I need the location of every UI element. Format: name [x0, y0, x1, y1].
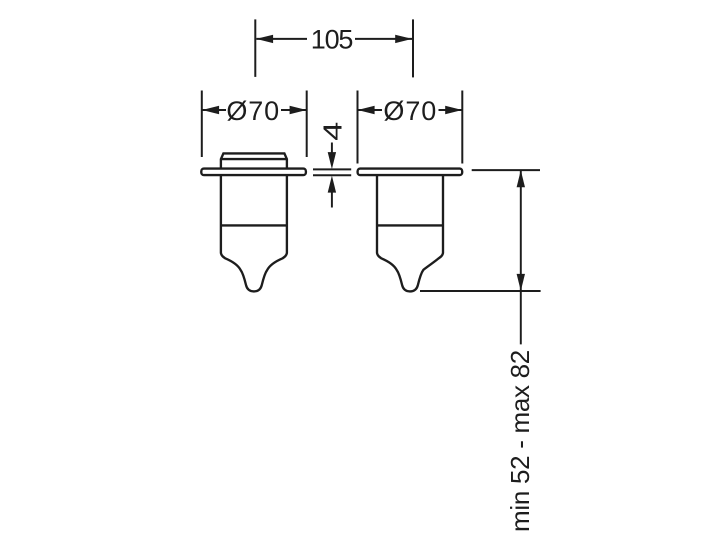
- left diameter dimension line: [202, 109, 307, 111]
- vertical dimension line: [520, 170, 522, 344]
- left valve flange plate: [201, 169, 306, 176]
- left valve body outline: [221, 175, 287, 291]
- vertical dimension top extension line: [472, 169, 540, 171]
- dimension 105 left arrowhead: [256, 35, 273, 43]
- dimension 105 right arrowhead: [395, 35, 412, 43]
- right diameter value label Ø70: [383, 96, 437, 126]
- dimension 105 line: [256, 38, 412, 40]
- left diameter left arrowhead: [202, 106, 219, 114]
- left diameter dimension extension line left: [201, 91, 203, 158]
- vertical dimension label min 52 - max 82 (rotated): [505, 350, 535, 532]
- vertical dimension bottom extension line: [420, 290, 541, 292]
- right valve body outline: [377, 175, 443, 291]
- dimension 4 lower arrowhead (points up): [328, 176, 336, 193]
- right diameter dimension line: [358, 109, 462, 111]
- vertical dimension bottom arrowhead (points down): [517, 274, 525, 291]
- dimension 4 upper leader stem: [331, 143, 333, 157]
- right diameter dimension extension line left: [357, 91, 359, 164]
- dimension 4 upper extension dash (flange top): [313, 168, 351, 170]
- dimension 4 lower leader stem: [331, 189, 333, 208]
- svg-text:Ø70: Ø70: [226, 96, 280, 126]
- dimension 4 value label (rotated): [318, 122, 348, 141]
- left valve body part line: [221, 224, 287, 226]
- right diameter dimension extension line right: [461, 91, 463, 164]
- right diameter right arrowhead: [445, 106, 462, 114]
- left valve cap disc: [221, 153, 287, 168]
- dimension 105 left extension line: [254, 19, 256, 77]
- left diameter dimension extension line right: [306, 91, 308, 158]
- svg-text:105: 105: [311, 25, 353, 55]
- dimension 4 upper arrowhead (points down): [328, 152, 336, 169]
- left diameter value label Ø70: [226, 96, 280, 126]
- right valve flange plate: [358, 169, 463, 176]
- dimension 4 lower extension dash (flange bottom): [313, 174, 351, 176]
- dimension 105 right extension line: [412, 19, 414, 77]
- svg-text:min 52 - max 82: min 52 - max 82: [505, 350, 535, 532]
- vertical dimension top arrowhead (points up): [517, 170, 525, 187]
- svg-text:Ø70: Ø70: [383, 96, 437, 126]
- right diameter left arrowhead: [358, 106, 375, 114]
- svg-text:4: 4: [318, 122, 348, 141]
- right valve body part line: [377, 224, 443, 226]
- left diameter right arrowhead: [290, 106, 307, 114]
- dimension 105 value label: [311, 25, 353, 55]
